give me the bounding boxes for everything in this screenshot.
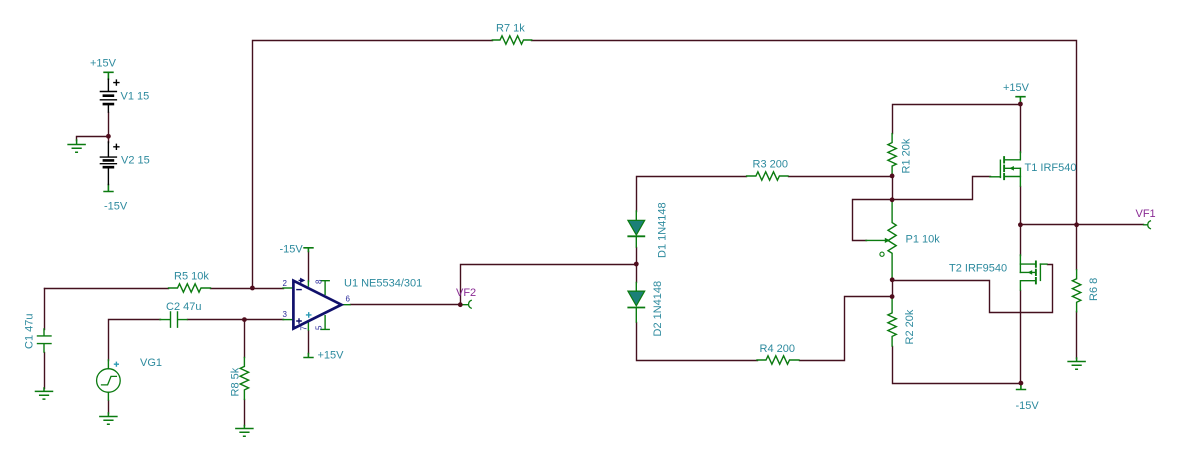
wire VG1 bottom to ground [108,401,110,414]
mosfet T2 arrow [1028,270,1033,275]
junction pin3 node [242,317,247,322]
svg-text:+15V: +15V [90,58,117,70]
op-amp U1 triangle [293,281,341,329]
wire wiper node to P1 wiper [853,200,893,241]
wire R6 top vertical [1076,225,1078,270]
svg-text:3: 3 [283,310,288,319]
mosfet T2 body stub with arrow [1020,271,1035,273]
svg-text:D1 1N4148: D1 1N4148 [657,202,669,258]
wire R8 top vertical [244,320,246,358]
ground below VG1 [100,413,117,424]
wire T2 gate routing [893,265,1053,313]
wire R4 right up to R2 top node [800,297,893,361]
resistor R1 20k [888,134,896,176]
resistor R3 200 [747,172,788,180]
ground below C1 [36,388,53,399]
junction R2 top node [890,294,895,299]
opamp U1 pin5 stub [321,316,329,330]
wire T1 drain from +15V node [1020,105,1022,153]
terminal VF1 lead and arc [1144,221,1151,229]
svg-text:-15V: -15V [1016,400,1040,412]
wire R8 bottom to ground [244,400,246,426]
svg-text:C2 47u: C2 47u [166,301,201,313]
wire output node to T2 source [1020,225,1022,256]
svg-text:P1 10k: P1 10k [906,234,941,246]
wire D2 bottom to R4 line [637,323,758,361]
mosfet T1 gate lead [990,176,1000,178]
wire output rail to VF1 [1021,224,1144,226]
svg-text:R8 5k: R8 5k [230,367,242,396]
resistor R6 8 [1072,270,1080,312]
svg-text:T1 IRF540: T1 IRF540 [1025,162,1077,174]
svg-text:V1 15: V1 15 [121,91,150,103]
svg-text:7: 7 [300,326,309,331]
diode D2 1N4148 triangle [628,291,645,306]
mosfet T2 source stub [1020,255,1035,264]
wire wiper node to T1 gate [893,177,991,200]
junction diode mid node [634,262,639,267]
junction pin2 node [250,286,255,291]
potentiometer P1 open terminal mark o [880,252,884,256]
mosfet T2 drain stub [1020,281,1035,290]
wire top rail right of R7 down to VF1 node [532,41,1077,225]
wire T2 drain to -15V node [1020,291,1022,384]
wire battery V1 bottom to mid node [108,113,110,137]
diode D1 1N4148 triangle [628,220,645,235]
capacitor C1 47u plates [38,336,52,344]
wire C2 to pin3 [188,319,284,321]
svg-text:5: 5 [315,325,324,330]
svg-text:R2 20k: R2 20k [904,309,916,344]
wire diode mid node to D2 [636,265,638,283]
diode D2 1N4148 cathode bar [628,307,644,309]
resistor R4 200 [757,356,799,364]
mosfet T1 gate bar [999,160,1001,177]
svg-text:D2 1N4148: D2 1N4148 [652,281,664,337]
resistor R8 5k [240,357,248,399]
svg-text:V2 15: V2 15 [121,155,150,167]
mosfet T2 gate lead [1040,263,1047,265]
wire input to R5 [45,288,169,290]
wire mid node to V2 top [108,137,110,143]
terminal +15V opamp bottom [304,354,313,358]
potentiometer P1 wiper arm [866,239,885,241]
wire D1 top to R3 line [637,177,747,212]
potentiometer P1 10k body [888,200,896,280]
wire +15V rail to R1 [893,105,1021,134]
mosfet T1 body stub with arrow [1005,167,1020,169]
svg-text:R1 20k: R1 20k [901,138,913,173]
junction VF2 node [458,302,463,307]
diode D2 1N4148 leads [635,283,637,323]
svg-text:-15V: -15V [104,201,128,213]
wire R1 node down to wiper node [892,176,894,200]
wire opamp output to VF2 node [351,304,461,306]
mosfet T1 channel ticks [1003,157,1005,179]
svg-text:R4 200: R4 200 [760,343,795,355]
wire battery mid node to ground [77,137,109,141]
terminal +15V top-left [104,72,113,79]
op-amp U1 minus sign pin2 [296,289,302,291]
svg-text:C1 47u: C1 47u [24,314,36,349]
opamp U1 pin2 lead [283,287,293,289]
svg-text:2: 2 [283,279,288,288]
capacitor C2 47u plates [171,312,178,327]
source VG1 circle [97,369,121,393]
wire R5 to pin2 [211,288,284,290]
svg-text:R6 8: R6 8 [1088,278,1100,301]
junction R3-R1 node [890,174,895,179]
junction P1 bottom node [890,277,895,282]
potentiometer P1 wiper arrowhead [885,238,890,243]
capacitor C1 47u leads [43,329,45,352]
wire P1 bottom node to R2 top node [892,280,894,297]
mosfet T1 source stub [1005,177,1020,187]
svg-text:U1 NE5534/301: U1 NE5534/301 [344,278,422,290]
battery V2 plates [100,157,116,164]
source VG1 plus marker [114,362,119,367]
terminal -15V bottom right [1017,383,1026,389]
junction +15V right node [1018,102,1023,107]
mosfet T1 arrow [1009,166,1014,171]
battery V2 plus sign [114,144,119,149]
junction battery mid [106,134,111,139]
svg-text:+15V: +15V [318,350,345,362]
wire R6 bottom to ground [1076,312,1078,359]
svg-text:VG1: VG1 [140,357,162,369]
svg-text:T2 IRF9540: T2 IRF9540 [949,263,1007,275]
wire T1 source to output node [1020,187,1022,225]
wire VF2 node up and right to diode mid node [461,265,637,305]
junction VF1-R6 node [1074,222,1079,227]
mosfet T2 body-source join [1019,264,1021,272]
junction output node [1018,222,1023,227]
svg-text:6: 6 [346,295,351,304]
source VG1 waveform [102,376,117,385]
terminal -15V opamp top [304,248,313,252]
svg-text:-15V: -15V [280,244,304,256]
terminal VF2 lead and arc [460,300,471,308]
mosfet T1 body-source join [1019,168,1021,176]
wire C1 bottom to ground [44,353,46,389]
battery V1 plates [100,92,116,100]
svg-text:+15V: +15V [1003,82,1030,94]
source VG1 leads [107,360,109,400]
battery V1 leads [107,79,109,112]
junction wiper node [890,197,895,202]
wire opamp neg supply top [308,252,310,282]
wire R3 to R1 node [789,176,893,178]
wire diode mid node to D1 [636,248,638,265]
diode D1 1N4148 leads [635,211,637,247]
mosfet T1 drain stub [1005,152,1020,160]
mosfet T2 channel ticks [1035,261,1037,283]
resistor R5 10k [169,284,211,292]
wire feedback top-left vertical and top rail left of R7 [253,41,493,289]
op-amp U1 plus sign pin3 [296,318,302,324]
op-amp U1 pin4 marker arrow [299,279,304,282]
wire VG1 top to pin3 line [109,320,161,361]
svg-text:R3 200: R3 200 [753,159,788,171]
ground below battery mid [68,140,85,152]
svg-text:R5 10k: R5 10k [174,271,209,283]
terminal +15V right [1016,97,1025,104]
junction -15V right node [1019,381,1024,386]
wire C1 top vertical [44,289,46,330]
battery V1 plus sign [114,80,119,85]
opamp U1 supply lead entries [307,281,309,330]
ground below R6 [1068,358,1085,369]
terminal -15V below V2 [104,185,113,192]
ground below R8 [236,426,253,437]
opamp U1 pin6 output lead [342,304,351,306]
opamp U1 pin3 lead [283,319,293,321]
svg-text:8: 8 [315,279,324,284]
wire R2 bottom to -15V node [893,347,1021,384]
battery V2 leads [107,142,109,185]
op-amp U1 supply plus marker [306,312,312,318]
opamp U1 pin8 stub [321,281,329,295]
svg-text:R7 1k: R7 1k [496,23,525,35]
diode D1 1N4148 cathode bar [628,235,644,237]
mosfet T2 gate bar [1039,264,1041,280]
capacitor C2 47u leads [160,319,187,321]
svg-text:VF1: VF1 [1136,208,1156,220]
wire opamp pos supply bottom [308,331,310,354]
resistor R7 1k [492,36,531,44]
svg-text:VF2: VF2 [456,287,476,299]
resistor R2 20k [888,297,896,346]
